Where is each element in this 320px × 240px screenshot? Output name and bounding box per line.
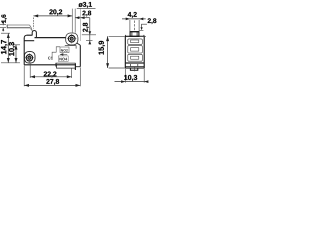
- arrow to common: [60, 53, 67, 55]
- case top line: [24, 40, 34, 42]
- dim 14,7 rotated: [7, 33, 9, 63]
- body right edge: [79, 45, 81, 66]
- boss bottom line: [65, 45, 77, 47]
- terminal label NO2: [61, 49, 68, 51]
- dim 2,8 end view leader: [142, 24, 147, 29]
- lever hinge loop: [32, 30, 36, 37]
- end view plunger: [130, 32, 139, 37]
- body left edge: [23, 38, 25, 65]
- end view top corner nubs: [126, 35, 144, 36]
- dim 4,2: [122, 18, 146, 20]
- end view inner box 1: [128, 39, 143, 45]
- dim 10,3 end view: [115, 81, 148, 83]
- terminal label NO4: [59, 58, 67, 61]
- label NO2 box: [60, 47, 69, 53]
- right mounting hole: [68, 35, 75, 42]
- dim 22,2 label: [44, 71, 57, 77]
- lever blade: [7, 25, 30, 28]
- plate top line: [27, 34, 33, 36]
- lever bend to hinge: [30, 25, 33, 31]
- dim 1,6 rotated: [0, 25, 6, 28]
- foot right bar terminal: [74, 63, 76, 70]
- dim 15,9 rotated: [107, 36, 109, 68]
- dim 2,8 end label: [148, 18, 157, 24]
- dim 15,9 label: [99, 41, 105, 55]
- top plate main line: [35, 37, 66, 39]
- dim 2,8 horizontal: [75, 17, 90, 19]
- dim o3,1 label: [78, 2, 91, 8]
- top-left corner arc: [24, 35, 26, 38]
- C1 leader staircase: [52, 47, 60, 59]
- bottom step right: [76, 66, 80, 68]
- right hole boss: [66, 33, 78, 45]
- right section divider: [75, 46, 77, 49]
- dim 10,3 left label: [9, 42, 15, 56]
- dim 22,2: [30, 76, 71, 78]
- dim 2,8 horiz label: [82, 11, 91, 17]
- body right slope: [77, 43, 81, 45]
- end view centerline: [133, 21, 135, 32]
- end view outer body: [125, 36, 144, 68]
- dim 27,8: [24, 84, 80, 86]
- bottom right foot: [57, 65, 76, 68]
- dim 10,3 bottom label: [124, 75, 137, 81]
- end view base lines: [125, 62, 144, 66]
- dim 4,2 label: [128, 12, 137, 18]
- body bottom edge: [24, 64, 75, 66]
- terminal label C1: [48, 57, 53, 60]
- bottom strip left bar: [55, 63, 57, 67]
- dim 2,8 vertical rotated: [89, 18, 91, 44]
- dim 2,8 vert label: [83, 23, 89, 32]
- dim 20,2: [33, 15, 72, 17]
- dim 14,7 label: [1, 40, 7, 54]
- end view bottom terminal tab: [130, 68, 137, 70]
- shelf line under phi 3,1: [77, 7, 96, 9]
- label NO4: [58, 56, 68, 61]
- left hole boss: [24, 52, 35, 63]
- dim 10,3 rotated: [15, 45, 17, 63]
- bottom terminal strip inner line: [56, 62, 76, 64]
- right hole crosshair: [67, 34, 76, 43]
- dim 27,8 label: [46, 79, 59, 85]
- end view inner box 2: [128, 46, 143, 54]
- left hole crosshair: [25, 53, 34, 62]
- plunger hidden/extension lines: [72, 9, 75, 33]
- end view inner box 3: [128, 54, 143, 61]
- dim 20,2 label: [49, 9, 62, 15]
- left mounting hole: [26, 55, 32, 61]
- dim 1,6 label: [1, 15, 6, 23]
